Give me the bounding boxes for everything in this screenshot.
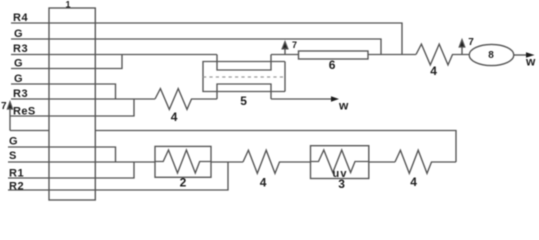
wire G1: [11, 39, 381, 55]
svg-text:G: G: [14, 28, 23, 40]
svg-text:4: 4: [430, 64, 437, 78]
svg-text:2: 2: [180, 175, 187, 189]
wire R4: [11, 23, 402, 55]
wire R2: [8, 162, 228, 190]
svg-text:4: 4: [171, 110, 178, 124]
resonator 5 inner bottom wire: [217, 84, 271, 99]
svg-text:S: S: [9, 150, 16, 162]
box 3: [311, 146, 369, 179]
resistor 4 middle: [155, 89, 217, 110]
box 6: [299, 51, 369, 59]
svg-text:7: 7: [1, 101, 7, 112]
wire G4: [8, 147, 116, 162]
arrow 7 left: [8, 102, 13, 131]
svg-text:6: 6: [329, 58, 336, 72]
connector block 1: [49, 8, 95, 200]
wire S: [8, 161, 155, 163]
wire box2 to resistor4: [211, 161, 243, 163]
arrow 7 right: [459, 40, 464, 55]
wire box3 to resistor4: [369, 161, 395, 163]
resistor in box 3: [311, 150, 370, 173]
wire output right: [514, 54, 527, 56]
resonator 5 inner top wire: [217, 55, 271, 71]
resistor 4 bottom right: [395, 150, 456, 173]
wire R3b: [11, 98, 155, 100]
wire node to box 6: [271, 54, 299, 56]
wire return right: [95, 131, 456, 163]
arrow w bottom: [331, 96, 339, 102]
wire return left: [10, 130, 49, 132]
svg-text:G: G: [9, 136, 18, 148]
svg-text:7: 7: [468, 37, 474, 48]
resonator 5 outer top: [203, 62, 285, 92]
svg-text:3: 3: [338, 177, 345, 191]
resonator 5 dashed centerline: [203, 76, 285, 78]
wire R1: [8, 162, 134, 178]
box 2: [155, 146, 211, 177]
wire box6 to resistor: [368, 54, 416, 56]
svg-text:5: 5: [240, 94, 247, 108]
wire G2: [11, 55, 122, 69]
svg-text:1: 1: [66, 0, 71, 10]
svg-text:8: 8: [488, 50, 494, 61]
svg-text:7: 7: [292, 40, 297, 50]
svg-text:G: G: [14, 73, 23, 85]
wire resonator output: [271, 98, 332, 100]
arrow 7 top: [282, 42, 288, 55]
svg-text:w: w: [525, 55, 536, 69]
resistor in box 2: [155, 150, 211, 173]
oscillator 8: [469, 44, 514, 65]
svg-text:G: G: [14, 58, 23, 70]
arrow w right: [526, 52, 535, 58]
svg-text:R4: R4: [13, 12, 28, 24]
resonator 5 right edge: [284, 62, 286, 92]
svg-text:R2: R2: [9, 181, 24, 193]
wire R3a: [11, 54, 217, 56]
wire G3: [11, 84, 116, 99]
wire ReS: [10, 99, 134, 116]
svg-text:R3: R3: [13, 43, 28, 55]
svg-text:4: 4: [260, 176, 267, 190]
svg-text:w: w: [338, 99, 349, 113]
resistor 4 top: [416, 44, 469, 65]
svg-text:4: 4: [410, 175, 417, 189]
resistor 4 bottom left: [243, 150, 311, 173]
svg-text:R3: R3: [13, 88, 28, 100]
